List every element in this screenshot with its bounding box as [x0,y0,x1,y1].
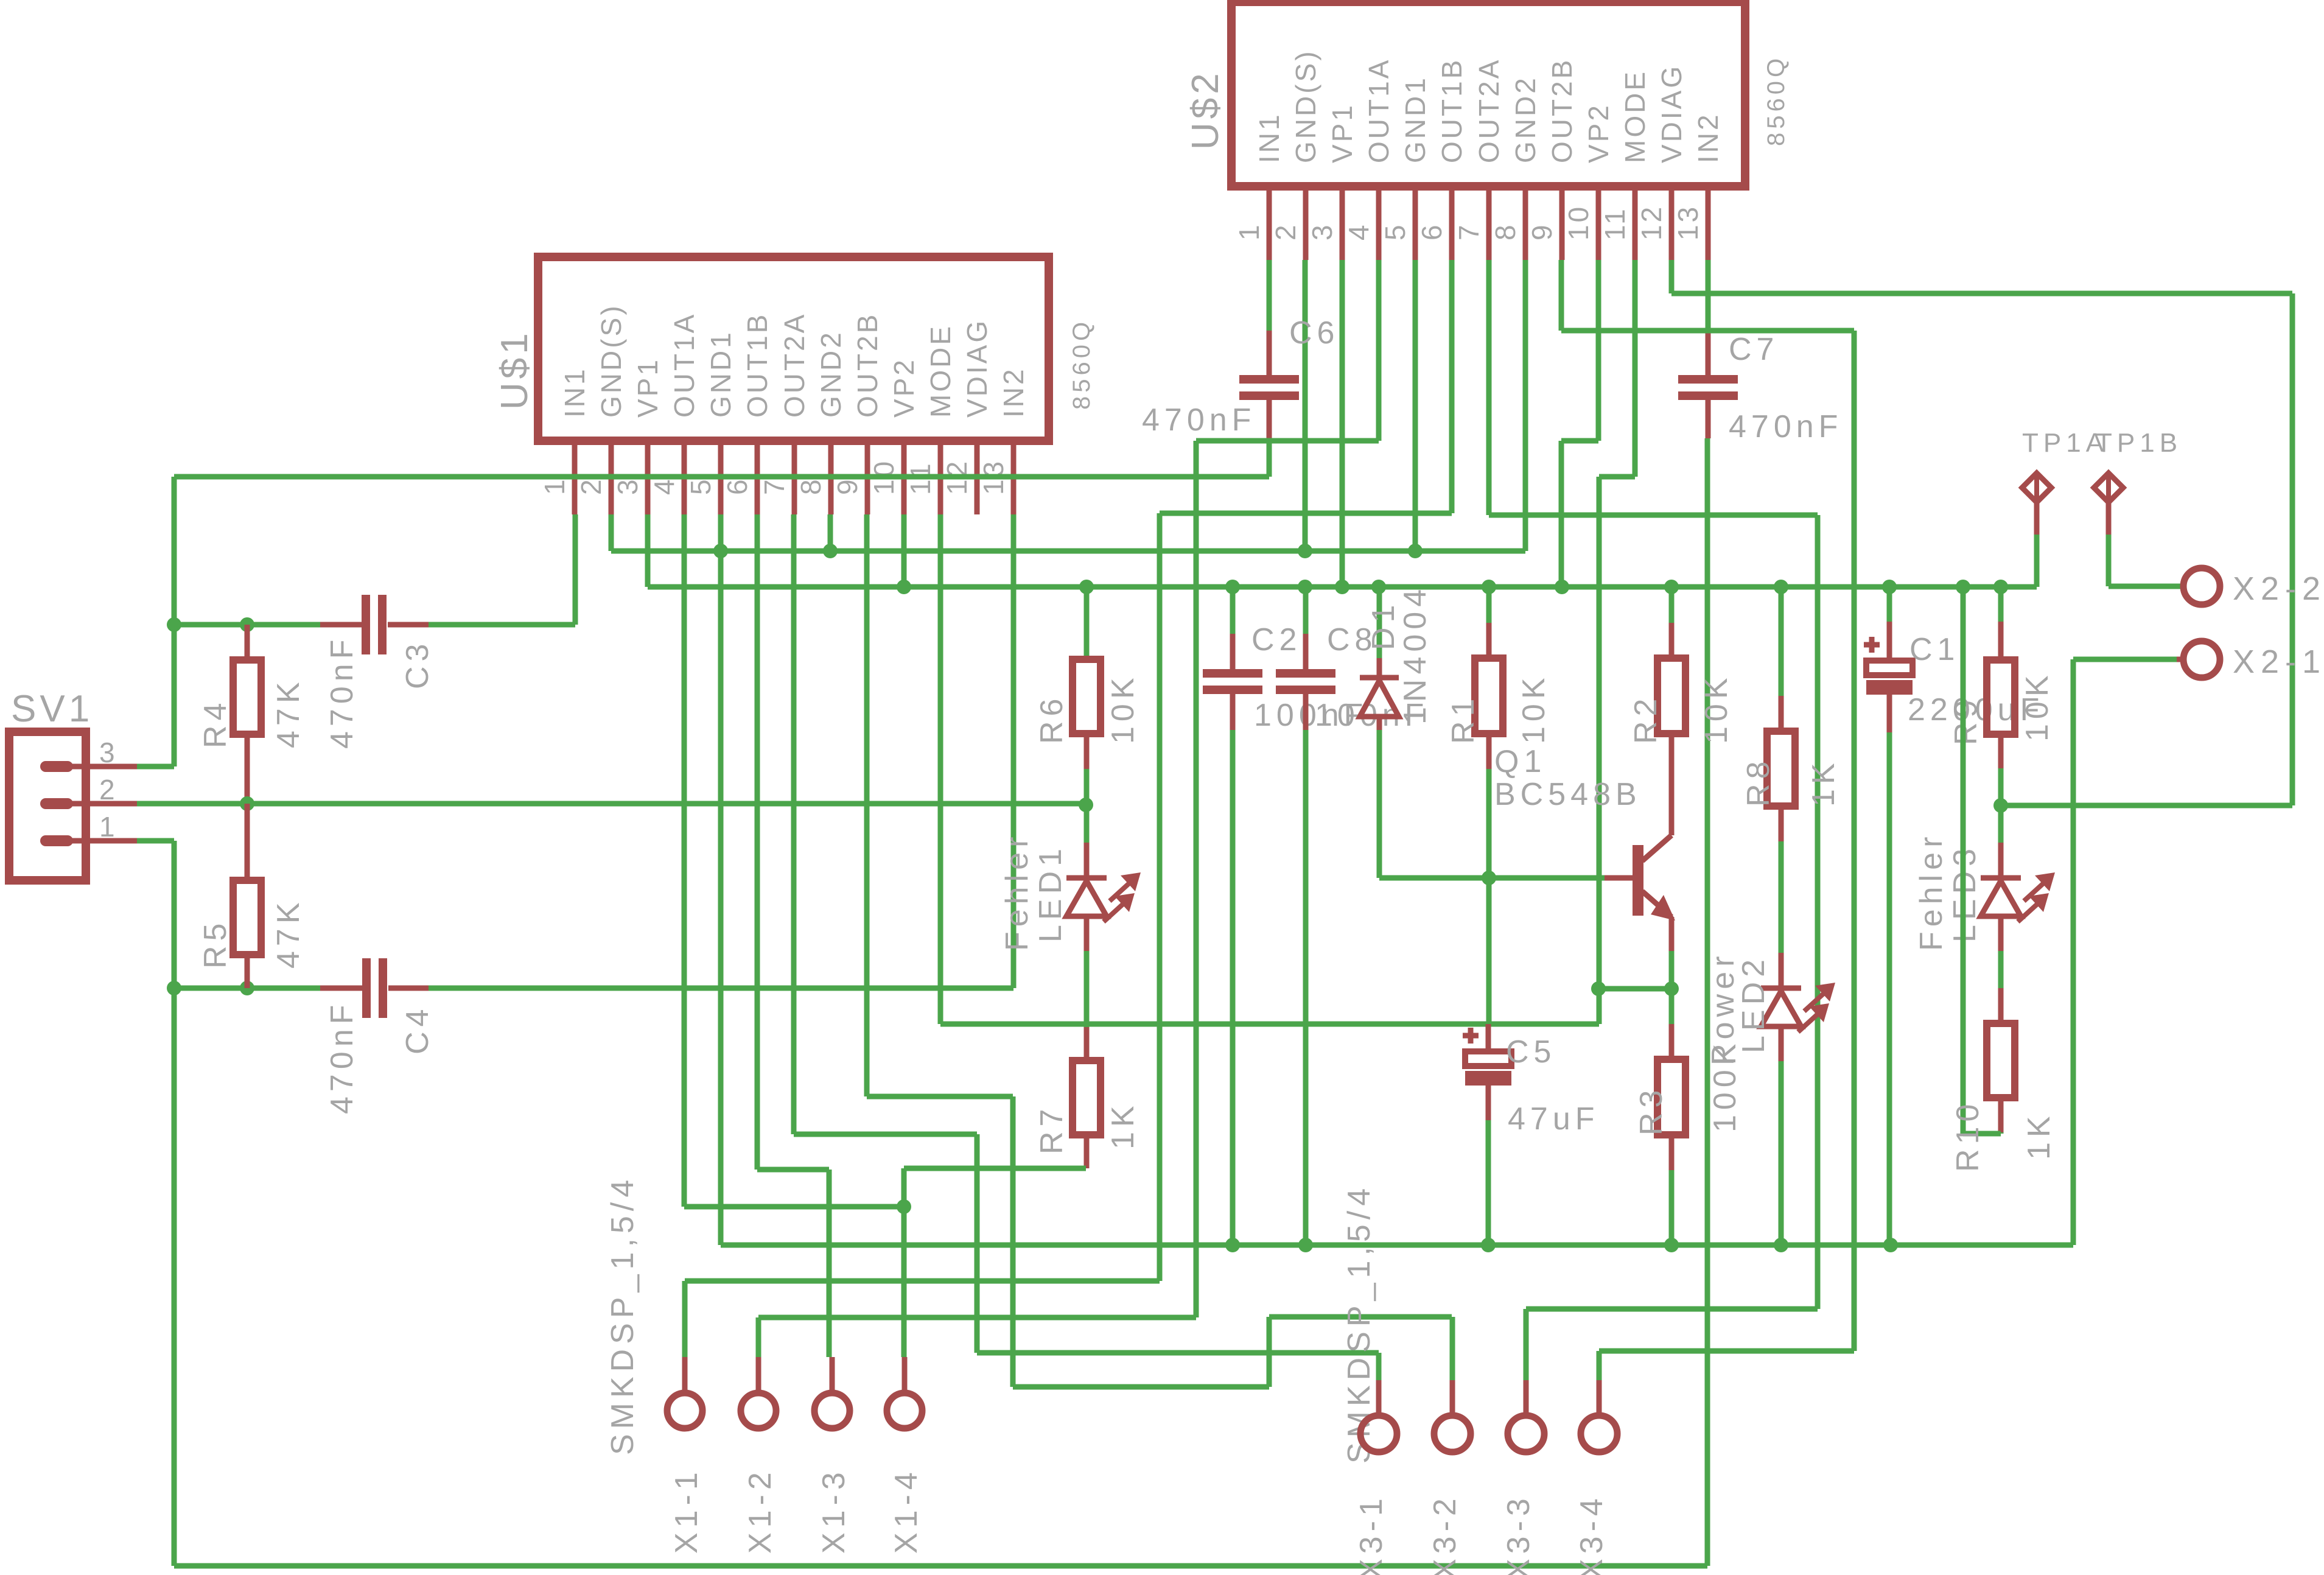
wire R1 bottom to MODE wire and C5 top [1486,878,1492,1024]
resistor R8 1K [1741,587,1841,807]
svg-text:GND1: GND1 [705,330,737,418]
wire bottom rail [174,1563,1707,1569]
wire emitter node horizontal y1624 [1598,986,1671,992]
U$2 pin 3 (VP1) [1306,103,1358,260]
wire Q1 base net y1442 [1379,875,1633,881]
node C4 row junction dots [167,981,254,995]
U$2 pin 7 (OUT2A) [1453,58,1505,260]
U$1 pin 4 (OUT1A) [648,312,700,514]
wire U$1 pin9 OUT2B route to X3-2 [867,514,1452,1387]
svg-text:8560Q: 8560Q [1763,55,1790,146]
svg-text:X1-4: X1-4 [889,1467,924,1554]
U$2 pin 12 (VDIAG) [1636,64,1687,260]
svg-text:6: 6 [721,477,753,495]
svg-text:R1: R1 [1446,694,1481,744]
U$2 pin 2 (GND(S)) [1270,49,1321,260]
U$2 pin 9 (OUT2B) [1526,58,1578,260]
U$1 pin 13 (IN2) [978,367,1029,514]
svg-text:3: 3 [1306,222,1338,240]
wire U$2 pin4 OUT1A jog left [1196,260,1379,441]
svg-text:X1-2: X1-2 [743,1467,778,1554]
svg-text:47K: 47K [271,897,306,969]
svg-text:VP1: VP1 [632,357,663,418]
U$1 pin 3 (VP1) [612,357,663,514]
svg-text:OUT2A: OUT2A [779,312,810,418]
pad X3-2 [1427,1380,1471,1575]
wire U$1 pin5 GND1 column down to lower rail [718,514,724,1245]
capacitor C7 470nF [1678,260,1843,444]
LED LED1 Fehler [999,805,1141,1027]
svg-text:MODE: MODE [925,324,956,418]
capacitor C1 2200uF [1864,587,2044,1245]
svg-text:GND2: GND2 [815,330,847,418]
svg-text:LED1: LED1 [1033,844,1068,942]
wire X1-2 stem [756,1317,761,1357]
svg-text:11: 11 [1599,206,1631,240]
svg-text:Fehler: Fehler [999,832,1035,951]
svg-text:C1: C1 [1909,632,1959,667]
node R4 bottom junction on SV1-2 wire [240,796,254,811]
svg-text:470nF: 470nF [1729,409,1843,444]
svg-text:470nF: 470nF [1142,402,1256,438]
svg-text:X3-2: X3-2 [1427,1493,1463,1575]
svg-text:2: 2 [575,477,607,495]
wire U$1 pin11 MODE horizontal y1682 [940,514,1599,1024]
wire U$2 pin12 VDIAG to R9/LED3 junction [1671,260,2292,805]
svg-text:5: 5 [685,477,716,495]
svg-text:VDIAG: VDIAG [961,318,993,418]
U$2 pin 6 (OUT1B) [1416,58,1468,260]
svg-text:R7: R7 [1034,1104,1069,1154]
wire U$1 pin8 GND2 stub [828,514,833,551]
svg-text:C5: C5 [1506,1034,1556,1070]
wire bottom-left vertical SV1-1 down to bottom rail [172,841,177,1566]
svg-text:1: 1 [1233,222,1265,240]
resistor R6 10K [1034,587,1141,805]
svg-text:R6: R6 [1034,694,1069,744]
U$1 pin 6 (OUT1B) [721,312,773,514]
svg-text:GND2: GND2 [1510,75,1541,163]
svg-text:1: 1 [539,477,570,495]
svg-text:IN2: IN2 [1692,112,1724,163]
svg-text:4: 4 [648,477,680,495]
svg-text:LED2: LED2 [1736,955,1771,1053]
wire vertical x1965 down to X1-2 row [758,441,1196,1317]
svg-text:13: 13 [1672,205,1704,240]
wire Q1 emitter down to emitter node [1669,917,1675,989]
op-amp U$2 (TDA8560Q power amp IC) box [1231,2,1745,186]
U$2 pin 8 (GND2) [1489,75,1541,260]
capacitor C3 [320,595,435,749]
wire right vertical C7 bottom to bottom rail [1705,438,1710,1566]
svg-text:OUT2B: OUT2B [852,312,883,418]
U$1 pin 8 (GND2) [795,330,847,514]
svg-text:R8: R8 [1741,757,1776,807]
wire U$2 pin9 OUT2B to X3-4 [1561,260,1854,1351]
pad X3-3 [1501,1380,1544,1575]
wire X3-4 stem [1597,1351,1602,1380]
svg-text:R5: R5 [198,919,233,969]
wire U$1 pin10 VP2 stub [901,514,907,587]
svg-text:GND(S): GND(S) [1290,49,1321,163]
wire U$2 pin11 MODE jog down to Q1 emitter node [1599,260,1635,1024]
U$1 pin 7 (OUT2A) [758,312,810,514]
wire IN1 top horizontal from SV1-3 to C6 column [174,474,1269,480]
wire C3 row left segment [174,622,320,628]
svg-text:10K: 10K [1699,673,1734,744]
svg-text:X2-2: X2-2 [2233,570,2324,607]
U$2 pin 5 (GND1) [1379,75,1431,260]
svg-text:X3-4: X3-4 [1574,1493,1609,1575]
capacitor C4 [320,958,435,1114]
svg-text:8560Q: 8560Q [1068,318,1095,410]
svg-text:10K: 10K [1516,673,1552,744]
wire U$1 pin6 OUT1B to X1-3 [757,514,829,1357]
U$2 pin 11 (MODE) [1599,69,1651,260]
svg-text:C3: C3 [400,639,435,689]
svg-text:5: 5 [1379,222,1411,240]
svg-text:Q1: Q1 [1494,744,1546,779]
U$2 pin 1 (IN1) [1233,112,1285,260]
wire C6 bottom connection vertical [1267,440,1272,477]
node emitter wire dots [1591,981,1679,996]
svg-text:IN1: IN1 [1253,112,1285,163]
svg-text:8: 8 [1489,222,1521,240]
resistor R5 47K [198,804,306,988]
wire U$1 pin4 OUT1A to X1-4 [684,514,904,1207]
capacitor C2 100nF [1203,587,1368,1245]
svg-text:OUT1B: OUT1B [1436,58,1468,163]
svg-text:10: 10 [1563,205,1594,240]
svg-text:1K: 1K [1105,1101,1141,1149]
U$1 pin 9 (OUT2B) [831,312,883,514]
svg-text:8: 8 [795,477,827,495]
capacitor C6 470nF [1142,260,1339,440]
wire X3-2 stem [1450,1317,1455,1380]
U$1 pin 1 (IN1) [539,367,590,514]
svg-text:7: 7 [758,477,790,495]
resistor R3 100K [1634,989,1743,1245]
wire SV1 pin 1 stub [67,838,174,844]
svg-text:1K: 1K [2021,1111,2057,1160]
wire X3-1 stem [1376,1353,1382,1380]
svg-text:VP2: VP2 [1583,103,1614,163]
wire SV1 pin 2 stub and long net to R6/LED1 junction [67,801,1086,807]
node C3 row junction dots [167,617,254,632]
svg-text:470nF: 470nF [324,635,360,749]
svg-text:4: 4 [1343,222,1374,240]
svg-text:Fehler: Fehler [1914,832,1949,951]
wire R7 bottom to X1-4 column [904,1166,1086,1171]
svg-text:OUT2B: OUT2B [1546,58,1578,163]
pad X2-1 [2073,641,2324,1245]
svg-text:GND1: GND1 [1399,75,1431,163]
svg-text:R4: R4 [198,698,233,748]
svg-text:10K: 10K [2020,670,2055,742]
U$1 pin 10 (VP2) [868,357,920,514]
U$1 pin 11 (MODE) [905,324,956,514]
resistor R4 47K [198,625,306,804]
svg-text:OUT1A: OUT1A [668,312,700,418]
node X1-4 feeder junction [897,1199,911,1214]
svg-text:R9: R9 [1948,695,1984,745]
svg-text:X3-1: X3-1 [1354,1493,1389,1575]
svg-text:D1: D1 [1366,600,1401,650]
svg-text:C6: C6 [1289,315,1339,351]
svg-text:9: 9 [831,477,863,495]
resistor R9 10K [1948,587,2055,805]
svg-text:X2-1: X2-1 [2233,644,2324,680]
svg-text:470nF: 470nF [324,1000,360,1114]
svg-text:1N4004: 1N4004 [1398,584,1433,724]
pad X3-4 [1574,1380,1617,1575]
wire U$2 pin10 VP2 jog to VP rail [1561,260,1598,587]
diode D1 1N4004 [1360,584,1433,878]
pad X1-3 [814,1357,852,1554]
svg-text:10K: 10K [1105,673,1141,744]
svg-text:7: 7 [1453,222,1485,240]
svg-text:OUT1A: OUT1A [1363,58,1395,163]
test point TP1B [2094,428,2183,586]
node R6/LED1/SV1-2 junction [1079,798,1093,812]
pad X3-1 [1354,1380,1397,1575]
resistor R10 1K [1950,587,2057,1172]
svg-text:SMKDSP_1,5/4: SMKDSP_1,5/4 [1342,1184,1377,1464]
op-amp U$1 (TDA8560Q power amp IC) box [538,257,1049,441]
connector SV1 [9,688,117,880]
U$1 pin 2 (GND(S)) [575,303,627,514]
capacitor C5 47uF [1463,1024,1600,1245]
wire U$1 pin7 OUT2A route to X3-1 [794,514,1379,1353]
svg-text:VDIAG: VDIAG [1656,64,1687,163]
U$2 pin 10 (VP2) [1563,103,1614,260]
LED LED3 Fehler [1914,805,2055,988]
wire U$2 pin2 GND(S) stub [1303,260,1308,551]
wire X3-3 stem [1524,1309,1529,1380]
wire SV1 pin 3 stub [67,764,174,770]
svg-text:47uF: 47uF [1508,1101,1600,1137]
transistor Q1 BC548B [1494,734,1675,921]
svg-text:C7: C7 [1729,332,1779,367]
U$2 pin 13 (IN2) [1672,112,1724,260]
svg-text:OUT1B: OUT1B [741,312,773,418]
svg-text:X1-3: X1-3 [816,1467,852,1554]
svg-text:R3: R3 [1634,1086,1669,1135]
svg-text:BC548B: BC548B [1494,777,1642,812]
svg-text:OUT2A: OUT2A [1473,58,1505,163]
svg-text:GND(S): GND(S) [595,303,627,418]
svg-text:47K: 47K [271,677,306,748]
wire VP supply rail y964 [648,514,2037,587]
wire U$2 pin6 OUT1B to X1-1 [685,260,1452,1281]
wire GND rail y905 from U$1 pin2 [611,260,1525,551]
svg-text:R10: R10 [1950,1100,1986,1172]
svg-text:X3-3: X3-3 [1501,1493,1536,1575]
svg-text:TP1B: TP1B [2096,428,2182,458]
U$2 pin 4 (OUT1A) [1343,58,1395,260]
wire C3 row right segment to U$1 pin1 [429,514,575,625]
svg-text:VP2: VP2 [888,357,920,418]
wire GND rail y2045 [721,1243,2073,1248]
test point TP1A [2022,428,2109,587]
wire C4 row left segment [174,986,320,991]
svg-text:1: 1 [99,811,117,843]
wire U$2 pin3 VP1 stub [1340,260,1345,587]
wire C4 row right segment to U$1 pin13 column [429,514,1013,988]
svg-text:C4: C4 [400,1005,435,1054]
pad X1-1 [667,1357,704,1554]
svg-text:2: 2 [99,774,117,805]
node GND rail dots [713,544,1423,558]
svg-text:3: 3 [99,737,117,768]
svg-text:U$1: U$1 [494,329,536,410]
svg-text:X1-1: X1-1 [669,1467,704,1554]
pad X1-2 [741,1357,778,1554]
svg-text:IN2: IN2 [998,367,1029,418]
node R9/LED3/VDIAG junction [1993,798,2008,813]
svg-text:6: 6 [1416,222,1447,240]
svg-text:C2: C2 [1251,622,1301,658]
pad X2-2 [2183,568,2324,607]
svg-text:12: 12 [1636,205,1667,240]
svg-text:2: 2 [1270,222,1301,240]
svg-text:VP1: VP1 [1326,103,1358,163]
LED LED2 Power [1706,806,1835,1245]
wire X1-1 stem [682,1281,688,1357]
svg-text:IN1: IN1 [559,367,590,418]
wire X1-4 column [901,1168,907,1357]
svg-text:1K: 1K [1806,758,1841,807]
svg-text:9: 9 [1526,222,1558,240]
node GND rail 2045 dots [1225,1238,1898,1252]
svg-text:MODE: MODE [1619,69,1651,163]
wire U$2 pin7 OUT2A to X3-3 [1489,260,1818,1309]
resistor R1 10K [1446,587,1552,878]
resistor R7 1K [1034,1027,1141,1168]
U$1 pin 5 (GND1) [685,330,737,514]
svg-text:SMKDSP_1,5/4: SMKDSP_1,5/4 [605,1175,640,1455]
svg-text:3: 3 [612,477,643,495]
resistor R2 10K [1628,587,1734,744]
U$1 pin 12 (VDIAG) [941,318,993,514]
capacitor C8 100nF [1276,587,1429,1245]
node VP rail junction dots [897,580,2008,594]
svg-text:U$2: U$2 [1185,69,1227,150]
node base wire R1 junction [1482,871,1496,885]
wire U$2 pin5 GND1 stub [1413,260,1418,551]
svg-text:SV1: SV1 [11,688,93,730]
svg-text:R2: R2 [1628,694,1664,744]
pad X1-4 [887,1357,924,1554]
wire SV1-3 vertical up to top horizontal [172,477,177,766]
